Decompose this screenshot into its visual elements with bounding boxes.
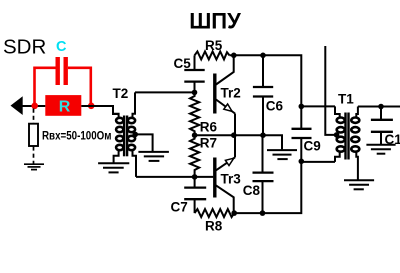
svg-text:T1: T1 xyxy=(338,92,354,107)
resistor Rвх (dashed leads) xyxy=(33,109,35,124)
node output / C1 xyxy=(378,104,384,110)
T2 core xyxy=(123,116,125,157)
ground (T2 primary) xyxy=(98,163,129,172)
capacitor C1 xyxy=(371,107,393,145)
T1 primary top lead xyxy=(335,106,340,117)
T1 core xyxy=(344,113,346,160)
svg-text:C9: C9 xyxy=(304,139,321,154)
svg-text:Rвх=50-100Ом: Rвх=50-100Ом xyxy=(42,129,112,143)
svg-text:R6: R6 xyxy=(200,120,218,135)
ground (input, dashed small) xyxy=(24,164,44,169)
T1 primary winding xyxy=(337,118,345,123)
node (red) input junction xyxy=(31,103,38,110)
svg-text:ШПУ: ШПУ xyxy=(189,9,241,34)
svg-text:Tr3: Tr3 xyxy=(221,172,242,187)
wire output xyxy=(358,106,400,108)
node C9 top xyxy=(299,104,305,110)
svg-text:C: C xyxy=(56,39,67,55)
ground (midpoint) xyxy=(267,150,297,159)
node C8 bottom xyxy=(260,210,266,216)
T2 secondary winding xyxy=(128,118,135,123)
T2 primary bottom lead xyxy=(114,150,119,162)
wire T2 to Tr3 base xyxy=(136,176,213,178)
node T2 center tap xyxy=(132,132,138,138)
node collector/R5 rail xyxy=(231,53,237,59)
wire emitter midpoint rail xyxy=(195,134,263,136)
T1 primary bottom lead xyxy=(335,152,340,162)
T2 secondary top lead xyxy=(133,92,136,117)
svg-text:Tr2: Tr2 xyxy=(221,86,241,101)
svg-text:R: R xyxy=(59,99,71,116)
T1 secondary winding xyxy=(351,118,359,123)
capacitor C (red SDR cap) xyxy=(35,57,91,103)
resistor R (red block) xyxy=(45,95,81,116)
wire bottom rail xyxy=(234,161,301,213)
capacitor C5 xyxy=(184,55,204,92)
svg-text:R8: R8 xyxy=(205,219,223,234)
transistor Tr2 xyxy=(215,55,235,135)
node emitter midpoint xyxy=(231,132,237,138)
wire top rail xyxy=(230,55,302,106)
T2 primary top lead xyxy=(113,106,119,118)
T2 secondary bottom lead xyxy=(133,150,137,177)
wire C9 bottom to T1 primary bottom xyxy=(301,161,335,163)
resistor R7 xyxy=(190,135,199,177)
wire T2 to Tr2 base node xyxy=(135,91,195,93)
T1 secondary bottom lead xyxy=(356,152,358,180)
wire midpoint to ground xyxy=(263,135,282,149)
node (red) right junction xyxy=(88,103,95,110)
resistor R5 xyxy=(195,51,230,59)
node Tr2 base xyxy=(192,90,198,96)
wire C9 top to T1 primary top xyxy=(301,105,335,107)
wire R block to T2 xyxy=(81,106,118,114)
capacitor C8 xyxy=(253,135,274,213)
node R6/R7 junction xyxy=(192,132,198,138)
resistor R6 xyxy=(190,92,199,135)
T1 secondary top lead xyxy=(356,107,358,118)
node Tr3 base xyxy=(192,174,198,180)
svg-text:C5: C5 xyxy=(174,56,192,71)
input arrow xyxy=(11,96,23,115)
capacitor C6 xyxy=(253,55,273,135)
svg-text:T2: T2 xyxy=(113,86,129,101)
node Tr3 collector / R8 xyxy=(231,210,237,216)
node C6 top xyxy=(260,53,266,59)
svg-text:C6: C6 xyxy=(266,99,284,114)
ground (C1) xyxy=(366,145,395,154)
arrow (Tr2 emitter) xyxy=(224,104,232,111)
ground (T2 center tap) xyxy=(138,152,169,161)
supply rail xyxy=(325,46,336,135)
svg-text:C8: C8 xyxy=(243,183,261,198)
svg-text:SDR: SDR xyxy=(3,36,46,59)
capacitor C7 xyxy=(184,177,206,213)
ground (T1 secondary) xyxy=(344,180,374,189)
node T1 center tap xyxy=(334,132,340,138)
arrow (Tr3 emitter) xyxy=(225,158,233,165)
resistor R8 xyxy=(195,209,235,217)
svg-text:C7: C7 xyxy=(171,200,188,215)
node C6/C8 junction xyxy=(260,132,266,138)
transistor Tr3 xyxy=(215,135,235,213)
node C9 bottom xyxy=(299,159,305,165)
svg-text:R7: R7 xyxy=(200,136,217,151)
capacitor C9 xyxy=(292,106,312,161)
input wire xyxy=(21,105,45,107)
T2 primary winding xyxy=(116,118,123,123)
T2 center tap lead xyxy=(133,134,153,151)
